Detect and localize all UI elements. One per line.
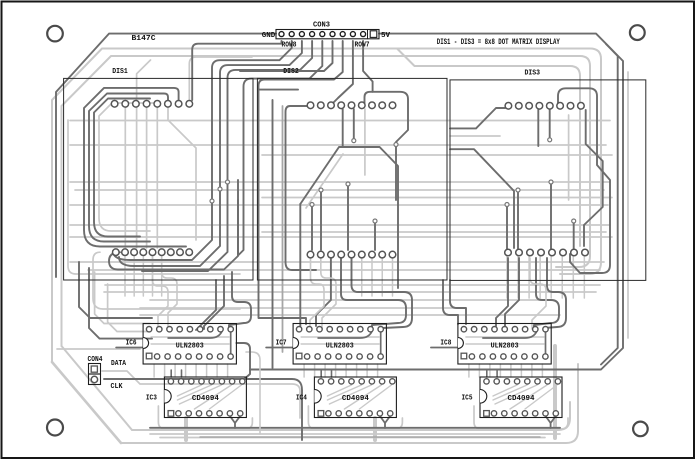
DIS2 top pad row [307,102,314,109]
mounting hole bottom-left [47,420,63,436]
IC7 top pads [296,327,301,332]
wire light loops under CD ICs [158,406,252,429]
wire light corner inside DIS1 right [168,108,196,240]
display footprint DIS1 box [64,78,253,280]
IC8 notch [458,338,464,349]
wire dark inside IC6 [168,331,222,338]
wire mid bottom horizontal [200,436,540,438]
wire bus y190 [75,189,604,191]
wire bus y155 [262,154,612,156]
svg-text:IC7: IC7 [276,340,287,348]
wire bus y232 [262,231,606,233]
IC7 bottom pads [304,354,309,359]
wire light bottom edge [121,364,578,443]
wire dark DIS2 house shape [300,147,398,288]
wire light loop third right [397,49,580,247]
wire dark DIS2 pad stubs to via [342,109,344,146]
svg-text:IC4: IC4 [296,395,307,403]
svg-text:IC5: IC5 [462,395,473,403]
DIS2 bottom pad row [307,251,314,258]
IC7 notch [293,338,299,349]
svg-text:B147C: B147C [132,35,156,43]
CON4 square pad DATA [91,366,97,372]
IC4 notch [314,390,321,404]
CON3 pin 9 [361,32,366,37]
CON3 pin 1 [279,32,284,37]
wire dark GND trace to DIS1 pad [192,41,281,100]
IC8 bottom pads [469,354,474,359]
wire dark CON3 staircase D [238,41,322,256]
wire dark CON3 staircase A [113,41,292,260]
wire dark CLK trace from CON4 [104,379,302,440]
wire light horizontal into IC6 area [57,348,140,350]
wire dark rail stubs to CD top pads [170,370,172,377]
wire light verticals below DIS3 pads [506,256,508,298]
via stubs inside DIS3 [506,205,508,251]
CON3 separator [367,30,369,39]
IC6 bottom pads [154,354,159,359]
wire dark vertical right inside DIS3 [601,44,618,365]
IC3 bottom pads [176,411,181,416]
wire light inside DIS3 [450,135,500,137]
wire light bottom horizontals [150,433,560,435]
wire dark CON3 ROW7 to DIS2 [331,41,353,105]
svg-text:CON3: CON3 [313,21,330,29]
CON3 pin 8 [350,32,355,37]
wire light verticals below DIS1 pads [124,256,126,296]
wire dark below-display fan to IC6 [229,272,251,329]
wire mid verticals in gap DIS1/DIS2 [282,106,284,352]
wire dark DIS3 left horizontals [450,108,505,128]
IC6 notch [143,338,149,349]
IC8 pin1 square pad [461,353,467,359]
wire dark bottom horizontal [150,427,560,429]
wire dark gap vertical to bottom rail [272,100,274,368]
wire dark DIS3 right inner bulge [584,110,603,246]
wire dark below-display fan to IC8 S-hooks [534,258,559,329]
svg-text:DIS3: DIS3 [525,70,541,78]
IC IC7 ULN2803 body [293,324,386,365]
IC4 top pads [318,379,323,384]
wire light staircase to DIS1 pad8 [189,57,252,100]
IC7 pin1 square pad [296,353,302,359]
wire dark left stub IC7 [266,347,292,349]
IC IC8 ULN2803 body [458,324,551,365]
IC5 pin1 square pad [484,411,490,417]
wire light hooks left to IC6 [95,272,150,324]
wire light wide vertical below IC3 [184,418,188,440]
wire dark CON3 staircase C [142,41,312,271]
CON4 round pad CLK [91,376,97,382]
IC IC4 CD4094 body [314,377,396,418]
wire light verticals below DIS2 pads [340,258,342,296]
wire light corner IC6 to IC4 [246,352,260,434]
svg-text:GND: GND [262,32,276,40]
wire bus y197.5 [262,197,612,199]
via stubs inside DIS2 [311,205,313,251]
wire dark DIS3 top-right chevron and right loop [558,88,610,273]
display footprint DIS2 box [257,78,447,280]
CON3 pin 2 [289,32,294,37]
wire dark DIS3 pad stubs to via [537,109,539,146]
wire dark DIS2 top-right chevron [365,92,409,200]
wire dark big loop right part with bottom rail [250,34,623,370]
via on DIS2 chevron [394,143,398,147]
DIS3 top pad row [505,103,512,110]
wire dark DIS2 left edge entry [286,106,317,270]
wire light board-outline loop outer [52,49,601,363]
mounting hole top-right [630,25,645,40]
connector CON4 [89,364,101,375]
wire dark IC6 to IC3 connector [236,343,250,380]
wire dark DIS1 nested C loops [84,88,186,247]
wire dark CON3 to gap bundle F [259,41,343,324]
svg-text:ULN2803: ULN2803 [176,343,204,351]
IC6 pin1 square pad [146,353,152,359]
IC4 bottom pads [326,411,331,416]
wire light wide vertical below IC5 [553,346,557,438]
IC3 notch [164,390,171,404]
svg-text:ULN2803: ULN2803 [326,343,354,351]
wire light verticals inside DIS1 [124,108,126,248]
wire bus y205 [70,204,608,206]
svg-text:DIS1: DIS1 [112,68,128,76]
wire dark IC8 left entry from DIS2/DIS3 gap [443,280,458,324]
CON3 pin 6 [330,32,335,37]
IC5 top pads [484,379,489,384]
wire bus y270 [88,269,600,271]
wire light bottom-left chamfer diagonals [52,362,121,443]
wire dark inside IC8 [483,331,537,338]
wire dark big loop left part, curls into IC6 [56,34,276,277]
wire light staircase DIS2 pads to IC7 [310,258,324,329]
svg-text:5V: 5V [381,32,390,40]
wire bus y225 [70,224,610,226]
svg-text:IC8: IC8 [440,340,451,348]
IC IC5 CD4094 body [480,377,562,418]
CON3 pin 7 [340,32,345,37]
svg-text:ULN2803: ULN2803 [491,343,519,351]
IC IC3 CD4094 body [164,377,246,418]
svg-text:CON4: CON4 [88,356,103,364]
DIS1 bottom pad row [113,249,120,256]
svg-text:DIS1 - DIS3 = 8x8 DOT MATRIX D: DIS1 - DIS3 = 8x8 DOT MATRIX DISPLAY [437,38,560,47]
wire mid loop inside DIS1 [94,99,150,237]
wire dark CON3 to gap bundle E [240,41,333,71]
svg-text:ROW8: ROW8 [282,42,297,50]
wire light inset inside DIS2 [306,154,343,208]
svg-text:IC3: IC3 [146,395,157,403]
wire bus y120.5 [70,120,610,122]
CON3 pin 3 [299,32,304,37]
connector CON3 [276,30,379,39]
wire bus y145 [70,144,606,146]
CON3 pin 4 [310,32,315,37]
wire dark DIS2 house left vertical to IC7 [299,204,301,326]
IC4 pin1 square pad [318,411,324,417]
display footprint DIS3 box [450,80,646,281]
wire dark CD bottom pad Y-stubs [230,416,235,428]
wire light horizontals below displays [105,284,600,286]
svg-text:ROW7: ROW7 [355,41,370,49]
wire bus y182 [70,181,610,183]
wire bus y237 [70,236,612,238]
wire light staircase DIS1 pads to IC6 [153,256,169,326]
wire light CON4 DATA trace [102,371,300,418]
mounting hole bottom-right [633,422,648,437]
mounting hole top-left [47,26,63,42]
IC5 bottom pads [491,411,496,416]
svg-text:DATA: DATA [111,360,126,368]
svg-text:CD4094: CD4094 [342,395,369,403]
wire light loop inside DIS1 [99,103,160,231]
wire light board-outline loop inner [62,56,591,346]
IC8 top pads [461,327,466,332]
wire bus y262 [70,261,604,263]
CON3 pin 10 square 5V pad [370,31,377,38]
wire dark left stub IC8 [431,347,457,349]
svg-text:CD4094: CD4094 [192,395,219,403]
wire light staircase DIS3 pads to IC8 [530,258,546,329]
wire dark DIS1 left hooks to IC6 [79,262,152,318]
wire light wide vertical below IC4 [373,418,377,440]
IC3 pin1 square pad [168,411,174,417]
wire dark inside IC7 [318,331,372,338]
wire dark below-display fan to IC7 S-hooks [341,258,406,329]
svg-text:CLK: CLK [111,383,123,391]
IC IC6 ULN2803 body [143,324,236,365]
via pads inside DIS1 [210,199,214,203]
DIS1 top pad row [111,101,118,108]
IC5 notch [480,390,487,404]
IC3 top pads [168,379,173,384]
wire light inside ULN ICs [151,336,229,338]
CON3 pin 5 [320,32,325,37]
DIS3 bottom pad row [505,249,512,256]
wire dark CON3 staircase B [119,41,302,266]
svg-text:DIS2: DIS2 [283,68,299,76]
wire light loops around IC columns [153,364,155,377]
svg-text:CD4094: CD4094 [508,395,535,403]
wire dark DIS1 under-pad loop [109,200,238,270]
svg-text:IC6: IC6 [126,340,137,348]
wire light right margin vertical [627,72,629,338]
wire dark left stub IC6 [116,347,142,349]
IC6 top pads [146,327,151,332]
wire light inside CD ICs diagonal fan [177,385,201,396]
